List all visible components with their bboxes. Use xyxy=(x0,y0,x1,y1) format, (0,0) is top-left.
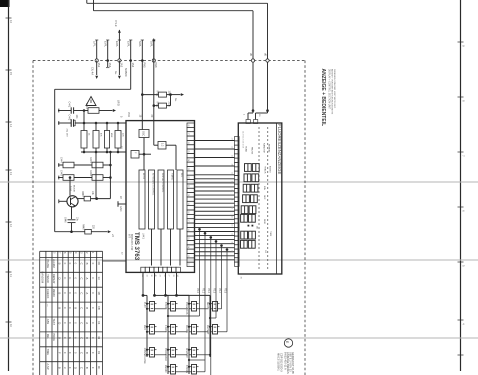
svg-text:F: F xyxy=(58,352,62,354)
svg-text:18: 18 xyxy=(230,181,232,183)
svg-text:KEYBOARD CONTROL: KEYBOARD CONTROL xyxy=(152,173,155,196)
wire emitter down to capacitor C446 xyxy=(71,207,73,219)
svg-text:F: F xyxy=(68,322,72,324)
test point arrow G+ below input 3 xyxy=(118,61,120,76)
IC inner functional block KEY B xyxy=(139,170,145,229)
left vertical bus wire xyxy=(54,89,56,231)
svg-text:11: 11 xyxy=(230,242,232,244)
off-sheet arrow G+ oscillator xyxy=(171,94,181,96)
svg-text:BC548: BC548 xyxy=(73,185,75,192)
svg-text:P1.d: P1.d xyxy=(114,21,118,27)
svg-text:GESEHEN VON DER LOETSEITE GEZ.: GESEHEN VON DER LOETSEITE GEZ. xyxy=(333,69,335,109)
svg-text:12: 12 xyxy=(9,224,13,228)
wire IC pin 29 to keyboard rail 2 xyxy=(154,272,156,295)
pushbutton switch MEMO xyxy=(171,365,176,375)
input wire net S/PL at x=153.8 xyxy=(153,40,155,61)
wire block5 to bottom pins xyxy=(179,229,181,266)
node on boundary input 4 xyxy=(129,59,132,62)
svg-text:F: F xyxy=(63,337,67,339)
svg-text:P2.5: P2.5 xyxy=(223,288,226,294)
svg-text:03: 03 xyxy=(97,351,101,355)
junction mid R443 xyxy=(106,151,109,154)
IC inner functional block TIMING xyxy=(168,170,174,229)
mid rail to IC pin 31 xyxy=(81,151,126,153)
svg-text:24: 24 xyxy=(187,159,189,161)
svg-text:1N4: 1N4 xyxy=(131,63,135,68)
bottom rail from left bus xyxy=(55,231,85,233)
wire P2.3 turn to rail4 xyxy=(210,317,216,319)
wire row1 junction down to VDD rail xyxy=(83,111,85,124)
svg-text:PAUSE: PAUSE xyxy=(251,147,254,155)
junction VDD R441 xyxy=(83,122,86,125)
junction VDD R444 xyxy=(117,122,120,125)
vertical from R442 bottom to collector node xyxy=(95,152,97,199)
svg-text:REM: REM xyxy=(263,219,265,224)
node on boundary input 5 xyxy=(141,59,144,62)
svg-text:C: C xyxy=(79,292,83,294)
svg-text:10: 10 xyxy=(230,250,232,252)
pushbutton switch STORE xyxy=(192,365,197,375)
svg-text:F: F xyxy=(91,278,95,280)
keyboard row2 return wire xyxy=(220,331,228,333)
svg-text:29: 29 xyxy=(159,275,161,277)
svg-text:R445: R445 xyxy=(89,157,92,163)
svg-text:R448: R448 xyxy=(81,191,83,197)
svg-text:C: C xyxy=(79,263,83,265)
pushbutton switch F.FWD xyxy=(171,325,176,335)
svg-text:KEY B: KEY B xyxy=(142,173,144,180)
svg-text:B: B xyxy=(85,263,89,265)
svg-text:G+: G+ xyxy=(114,71,118,75)
svg-text:F: F xyxy=(63,322,67,324)
wire top rail 2 from sheet edge to display pin 26 xyxy=(86,0,88,3)
resistor R442 vertical xyxy=(95,123,97,131)
off-sheet arrow P1.d above input 3 xyxy=(118,30,120,40)
svg-text:DISPLAY: DISPLAY xyxy=(185,348,188,358)
vertical bus x=110.4 xyxy=(109,152,111,199)
svg-text:A: A xyxy=(85,322,89,324)
junction rail3 rows xyxy=(188,303,190,305)
svg-text:NEXT: NEXT xyxy=(206,302,209,309)
svg-text:F: F xyxy=(63,278,67,280)
svg-text:F: F xyxy=(91,263,95,265)
keyboard row1 return wire xyxy=(220,308,222,310)
seven segment digit pair 5 xyxy=(241,206,248,214)
node d6 on boundary xyxy=(266,59,269,62)
wire OSC to divider xyxy=(143,138,145,155)
display top pin 1 box xyxy=(246,120,250,124)
wire C443 to UP.D arrow xyxy=(99,110,113,112)
svg-text:12: 12 xyxy=(230,233,232,235)
junction emitter bottom rail xyxy=(70,230,73,233)
warning triangle symbol xyxy=(86,97,96,106)
svg-text:D: D xyxy=(74,367,78,369)
IC inner oscillator box OSC xyxy=(139,130,149,138)
svg-text:33: 33 xyxy=(97,336,101,340)
off-sheet arrow UP.D xyxy=(113,109,116,112)
svg-text:13: 13 xyxy=(230,224,232,226)
junction inner xyxy=(143,153,146,156)
svg-text:E/PL: E/PL xyxy=(104,41,108,48)
svg-text:PLAY: PLAY xyxy=(143,302,146,308)
svg-text:STORE: STORE xyxy=(185,365,188,374)
connector stub row 2 VDD xyxy=(58,122,71,124)
resistor R445 xyxy=(92,162,103,168)
svg-text:F: F xyxy=(68,307,72,309)
svg-text:PROG: PROG xyxy=(52,334,55,341)
svg-text:F: F xyxy=(91,367,95,369)
svg-text:FLUORESZENZANZEIGE: FLUORESZENZANZEIGE xyxy=(277,124,282,175)
svg-text:19: 19 xyxy=(187,203,189,205)
transistor base stub xyxy=(59,200,67,202)
keyboard column wire P2.3 xyxy=(215,240,218,243)
svg-text:REV: REV xyxy=(143,325,146,330)
pushbutton switch REV xyxy=(150,325,155,335)
wire R449 to +5 arrow xyxy=(91,231,107,233)
svg-text:—: — xyxy=(46,304,49,307)
svg-text:C442: C442 xyxy=(68,115,71,121)
frame right border line xyxy=(460,0,462,371)
svg-text:L/PL: L/PL xyxy=(93,41,97,47)
svg-text:17: 17 xyxy=(187,220,189,222)
svg-text:F: F xyxy=(68,352,72,354)
paper fold line lower xyxy=(0,337,478,339)
svg-text:B: B xyxy=(85,367,89,369)
seven segment digit pair 2 xyxy=(244,174,251,182)
pushbutton switch PLAY xyxy=(150,302,155,312)
svg-text:CHECK: CHECK xyxy=(46,289,50,299)
svg-text:B: B xyxy=(58,367,62,369)
svg-text:F: F xyxy=(63,307,67,309)
display module body FLUORESZENZANZEIGE xyxy=(238,123,281,274)
svg-text:ANZEIGE + BEDIENTEIL: ANZEIGE + BEDIENTEIL xyxy=(320,69,326,127)
svg-text:TRACK: TRACK xyxy=(264,166,267,174)
IC inner functional block DIG xyxy=(177,170,183,229)
svg-text:F: F xyxy=(63,352,67,354)
pushbutton switch OPEN/CLOSE xyxy=(150,348,155,358)
input wire net S/PL at x=142.3 xyxy=(141,40,143,61)
svg-text:REPEAT: REPEAT xyxy=(268,144,271,153)
svg-text:F: F xyxy=(63,263,67,265)
wire pin20 to divider xyxy=(153,121,155,146)
pushbutton switch PREVIOUS xyxy=(192,302,197,312)
svg-text:SEC: SEC xyxy=(263,195,265,200)
svg-text:R446: R446 xyxy=(89,170,92,176)
junction input5 / R451 xyxy=(141,93,144,96)
svg-text:1N2: 1N2 xyxy=(108,63,112,68)
svg-text:27: 27 xyxy=(187,133,189,135)
svg-text:21: 21 xyxy=(187,185,189,187)
wire C441 to C443 xyxy=(74,110,88,112)
capacitor C445 xyxy=(63,175,74,181)
display left pin strip xyxy=(235,137,240,141)
resistor R441 vertical xyxy=(83,123,85,131)
svg-text:25: 25 xyxy=(187,150,189,152)
IC inner functional block DISPLAY CONTROL xyxy=(158,170,164,229)
svg-text:INDEX: INDEX xyxy=(269,166,271,173)
connector stub row 1 xyxy=(58,110,71,112)
stub below input 2 xyxy=(107,61,109,68)
wire jog into display pin 1 xyxy=(252,111,254,113)
svg-text:R451: R451 xyxy=(156,91,159,97)
svg-text:C: C xyxy=(79,337,83,339)
svg-text:REPEAT: REPEAT xyxy=(206,325,209,335)
svg-text:B: B xyxy=(58,263,62,265)
keyboard column wire P2.2 xyxy=(210,236,213,239)
input wire net L/PL at x=96.7 xyxy=(96,40,98,61)
junction on oscillator output xyxy=(169,93,172,96)
wire R445 to vertical bus xyxy=(103,164,110,166)
svg-text:TMS 3763: TMS 3763 xyxy=(133,232,140,261)
svg-text:P2.3: P2.3 xyxy=(212,288,215,294)
svg-text:23: 23 xyxy=(230,138,232,140)
svg-text:B: B xyxy=(58,337,62,339)
svg-text:C: C xyxy=(79,278,83,280)
IC bottom pin strip xyxy=(141,267,145,272)
node on boundary input 1 xyxy=(95,59,98,62)
svg-text:UP.D: UP.D xyxy=(117,100,121,106)
svg-text:R452: R452 xyxy=(156,102,159,108)
svg-text:14: 14 xyxy=(9,124,13,128)
wire top rail 1 from sheet edge to display pin 1 xyxy=(93,0,95,11)
junction mid R441 xyxy=(83,151,86,154)
svg-text:VDD: VDD xyxy=(127,112,130,117)
svg-text:S/PL: S/PL xyxy=(150,41,154,48)
svg-text:D: D xyxy=(58,322,62,324)
svg-text:15: 15 xyxy=(187,237,189,239)
ground stub to IC pin 22 xyxy=(118,203,126,205)
junction VDD R442 xyxy=(95,122,98,125)
svg-text:0F: 0F xyxy=(97,366,101,370)
svg-text:C445: C445 xyxy=(60,170,63,176)
svg-text:19: 19 xyxy=(230,172,232,174)
svg-text:F.FWD: F.FWD xyxy=(164,325,167,333)
svg-text:13: 13 xyxy=(187,255,189,257)
input wire net E/PL at x=130.7 xyxy=(130,40,132,61)
svg-text:13: 13 xyxy=(97,277,101,281)
svg-text:G+: G+ xyxy=(174,98,178,102)
decimal point squares xyxy=(248,225,250,227)
junction VDD R443 xyxy=(106,122,109,125)
node on boundary input 2 xyxy=(106,59,109,62)
svg-text:C: C xyxy=(79,307,83,309)
display title divider line xyxy=(276,123,278,274)
capacitor C446 plates xyxy=(68,219,76,221)
keyboard column wire P2.1 xyxy=(204,232,207,235)
node on boundary input 6 xyxy=(152,59,155,62)
wire IC pin 26 to keyboard rail 3 xyxy=(165,272,167,295)
junction rail1 row3 xyxy=(146,349,148,351)
svg-text:18: 18 xyxy=(187,211,189,213)
capacitor C444 xyxy=(63,162,74,168)
node on boundary input 3 xyxy=(118,59,121,62)
seven segment digit pair 8 xyxy=(241,240,248,248)
junction rail4 rows xyxy=(209,303,211,305)
svg-text:22: 22 xyxy=(187,176,189,178)
frame left border line xyxy=(8,0,10,371)
svg-text:13: 13 xyxy=(9,172,13,176)
svg-text:F: F xyxy=(68,263,72,265)
junction bus mid rail xyxy=(109,151,112,154)
junction base node xyxy=(69,176,72,179)
svg-text:D: D xyxy=(58,278,62,280)
svg-text:23: 23 xyxy=(187,168,189,170)
svg-text:F: F xyxy=(68,292,72,294)
wire collector to R448 xyxy=(77,198,85,200)
pushbutton switch DISPLAY xyxy=(192,348,197,358)
junction rail2 rows xyxy=(167,303,169,305)
wire divider output xyxy=(166,144,176,146)
IC inner functional block KEYBOARD CONTROL xyxy=(149,170,155,229)
svg-text:GND: GND xyxy=(119,206,122,212)
resistor R449 xyxy=(85,229,92,234)
keyboard column wire P2.0 xyxy=(198,228,201,231)
resistor R444 vertical xyxy=(117,123,119,131)
wire C444 to R445 xyxy=(74,164,92,166)
svg-text:PAUSE: PAUSE xyxy=(46,259,50,268)
wire OSC input from pin 15 xyxy=(141,121,143,130)
svg-text:PH5: PH5 xyxy=(143,63,147,69)
wire table to IC pin xyxy=(103,260,127,262)
svg-text:16: 16 xyxy=(230,198,232,200)
svg-text:PREVIOUS: PREVIOUS xyxy=(185,302,188,315)
svg-text:08: 08 xyxy=(97,262,101,266)
svg-text:P2.1: P2.1 xyxy=(201,288,204,294)
svg-text:22u 16V: 22u 16V xyxy=(66,129,68,138)
resistor R451 xyxy=(159,92,167,97)
capacitor C441 plates xyxy=(70,107,72,113)
svg-text:17: 17 xyxy=(230,190,232,192)
wire segment comb dense group xyxy=(195,174,235,176)
board boundary dashed top edge xyxy=(33,60,305,62)
svg-text:DISPLAY + CONTROL SECTION UNIT: DISPLAY + CONTROL SECTION UNIT xyxy=(328,69,331,110)
display inner dashed separator 2 xyxy=(267,127,269,270)
wire C446 to bottom rail xyxy=(71,223,73,232)
svg-text:28: 28 xyxy=(172,275,174,277)
junction mid R442 xyxy=(95,151,98,154)
svg-text:U441: U441 xyxy=(142,233,145,239)
svg-text:26: 26 xyxy=(163,275,165,277)
wire joining R451 R452 right ends xyxy=(167,94,171,96)
input wire net E/PL at x=119.4 xyxy=(118,40,120,61)
wire P2.0 turn to rail2 xyxy=(168,315,200,317)
off-sheet arrow +5 xyxy=(108,230,111,233)
svg-text:B: B xyxy=(85,352,89,354)
svg-text:PROGRAM: PROGRAM xyxy=(164,348,167,361)
junction R448 bus xyxy=(95,197,98,200)
svg-text:B: B xyxy=(85,307,89,309)
svg-text:TIMING: TIMING xyxy=(171,173,173,181)
svg-text:04: 04 xyxy=(97,321,101,325)
seven segment digit pair 4 xyxy=(243,195,250,203)
resistor R452 xyxy=(159,103,167,108)
svg-text:14: 14 xyxy=(230,216,232,218)
svg-text:24 23 22 21 20 19 18: 24 23 22 21 20 19 18 xyxy=(241,131,243,148)
wire jog into display pin 26 xyxy=(267,111,269,113)
svg-text:P2.4: P2.4 xyxy=(218,288,221,294)
test point arrow C/L-4A below input 1 xyxy=(96,61,98,76)
svg-text:B: B xyxy=(58,292,62,294)
wire base node from row4 xyxy=(69,178,71,196)
svg-text:CDP 552 ESD X: CDP 552 ESD X xyxy=(280,353,284,372)
svg-text:B: B xyxy=(58,307,62,309)
svg-text:F: F xyxy=(68,367,72,369)
pushbutton switch NEXT xyxy=(213,302,218,312)
seven segment digit pair 6 xyxy=(241,214,248,222)
junction rail1 row1 xyxy=(146,303,148,305)
resistor R443 vertical xyxy=(106,123,108,131)
svg-text:A: A xyxy=(85,292,89,294)
svg-text:F: F xyxy=(91,307,95,309)
capacitor C443 xyxy=(88,108,99,114)
board boundary dashed right edge xyxy=(304,61,306,375)
svg-text:11: 11 xyxy=(9,274,13,277)
wire to R451 xyxy=(142,94,158,96)
svg-text:ALARM: ALARM xyxy=(52,259,55,268)
svg-text:C443: C443 xyxy=(85,103,88,109)
wire block3 to bottom pins xyxy=(160,229,162,266)
keyboard row3 return wire xyxy=(157,354,167,356)
svg-text:TIME: TIME xyxy=(269,231,271,237)
svg-text:10: 10 xyxy=(9,324,13,328)
svg-text:R449: R449 xyxy=(82,224,84,230)
wire input 6 down to IC pin 20 xyxy=(153,61,155,121)
junction bus row3 xyxy=(109,164,112,167)
junction mid R444 xyxy=(117,151,120,154)
svg-text:N3B20: N3B20 xyxy=(124,68,128,77)
svg-text:MEMO: MEMO xyxy=(164,365,167,373)
svg-text:1N3: 1N3 xyxy=(120,63,124,68)
svg-text:F: F xyxy=(91,352,95,354)
pushbutton switch PROGRAM xyxy=(171,348,176,358)
svg-text:28: 28 xyxy=(187,124,189,126)
svg-text:C/L-4A: C/L-4A xyxy=(91,67,95,75)
off-sheet arrow P1.d above input 6 xyxy=(153,41,155,61)
svg-text:C441: C441 xyxy=(68,102,71,108)
IC right pin strip xyxy=(187,123,195,127)
pushbutton switch STOP xyxy=(171,302,176,312)
svg-text:C: C xyxy=(79,322,83,324)
frame right ticks with grid numbers xyxy=(458,41,464,43)
wire IC pin 40 to keyboard rail 1 xyxy=(142,272,144,295)
wire to R452 xyxy=(154,105,159,107)
svg-text:S/PL: S/PL xyxy=(138,41,142,48)
svg-text:E/PL: E/PL xyxy=(115,41,119,48)
svg-text:MIN: MIN xyxy=(263,186,265,190)
svg-text:TRACK: TRACK xyxy=(46,274,50,283)
wire R446 to vertical bus xyxy=(103,177,110,179)
connector stub row 4 xyxy=(58,177,63,179)
svg-text:26: 26 xyxy=(187,142,189,144)
svg-text:B: B xyxy=(85,337,89,339)
seven segment digit pair 3 xyxy=(243,184,250,192)
svg-text:F: F xyxy=(91,292,95,294)
svg-text:C444: C444 xyxy=(60,157,63,163)
svg-text:OSC: OSC xyxy=(142,131,145,136)
svg-text:F: F xyxy=(68,278,72,280)
input wire net E/PL at x=107.7 xyxy=(107,40,109,61)
svg-text:9: 9 xyxy=(230,259,232,260)
pushbutton switch PAUSE xyxy=(192,325,197,335)
svg-text:30: 30 xyxy=(150,275,152,277)
wire block2 to bottom pins xyxy=(151,229,153,266)
junction input6 / R452 xyxy=(153,104,156,107)
svg-text:C: C xyxy=(79,352,83,354)
svg-text:PH6: PH6 xyxy=(154,63,158,69)
keyboard column wire P2.4 xyxy=(220,244,223,247)
svg-text:0B: 0B xyxy=(97,306,101,310)
svg-text:REL: REL xyxy=(46,334,50,340)
